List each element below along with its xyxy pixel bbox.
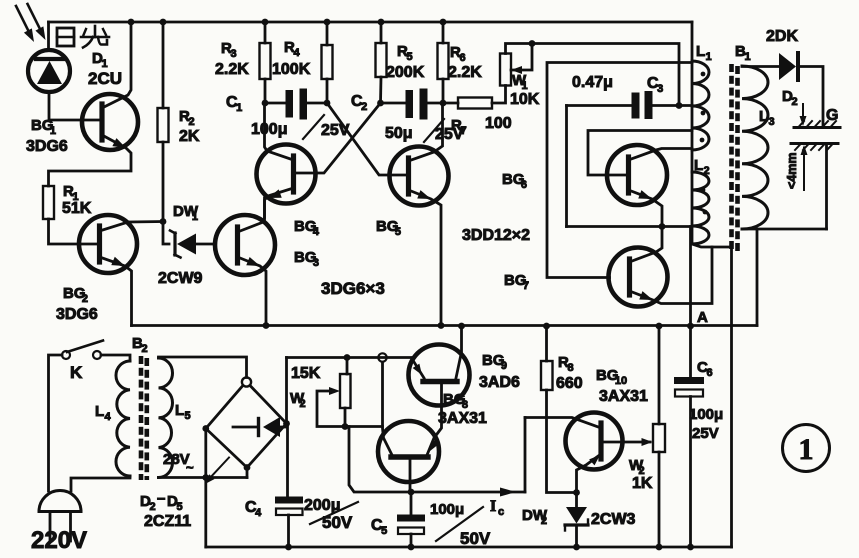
svg-text:2CZ11: 2CZ11 [144, 513, 191, 530]
value label 100u/25V [251, 115, 350, 139]
label R8 [558, 354, 574, 374]
wire C4 to bottom bus [287, 515, 290, 547]
svg-text:2CU: 2CU [88, 69, 122, 88]
svg-text:A: A [697, 309, 708, 326]
label R4 [284, 39, 300, 59]
wire BG10 base to W2 wiper [601, 438, 653, 446]
label C5 [371, 517, 387, 537]
label D2 [782, 88, 798, 108]
capacitor C1 100u/25V plates [286, 89, 308, 120]
wire bus to R8 [545, 326, 548, 361]
wire W2 15K bottom node [342, 408, 349, 430]
label L2 [694, 157, 710, 177]
wire tie line down to node A [689, 227, 692, 378]
svg-text:100K: 100K [272, 61, 311, 78]
wire C3 left down to BG6 emitter line [565, 106, 568, 227]
svg-text:3DD12×2: 3DD12×2 [462, 227, 530, 244]
svg-text:50V: 50V [460, 529, 491, 548]
wire R5 to C2 node [379, 77, 382, 103]
gap spacing dimension arrows [800, 104, 808, 190]
svg-text:7: 7 [460, 125, 466, 137]
wire L2 bottom jog [692, 244, 732, 247]
value label 100K [272, 61, 311, 78]
potentiometer W2 1K [653, 424, 665, 452]
value label 1K [632, 475, 653, 492]
label W2 15K [290, 390, 306, 410]
capacitor C2 50u/25V plates [406, 89, 428, 120]
spark gap G top electrode [794, 121, 840, 128]
svg-text:I: I [490, 498, 496, 515]
wire switch to L4 top [101, 355, 130, 361]
label C4 [245, 499, 262, 519]
transistor BG6 [607, 145, 667, 205]
wire bridge plus output riser [285, 358, 288, 424]
resistor R4 100K [322, 45, 333, 79]
svg-text:200K: 200K [386, 64, 425, 81]
wire BG8 emitter to BG9 base [427, 384, 442, 455]
label BG7 [504, 272, 529, 292]
wire C2 right lead [428, 102, 444, 105]
label C1 [226, 94, 242, 114]
label L1 [696, 43, 712, 63]
svg-text:L: L [175, 402, 184, 419]
wire L2 return drop to bottom bus [730, 247, 733, 547]
value label 200K [386, 64, 425, 81]
svg-text:660: 660 [556, 375, 583, 392]
wire rail to R2 [162, 22, 165, 108]
wire junction down to DW1 [163, 222, 169, 245]
svg-text:3AX31: 3AX31 [599, 388, 648, 405]
svg-text:2.2K: 2.2K [448, 64, 482, 81]
transformer B2 winding L5 [159, 358, 173, 478]
wire BG2 collector to node [100, 222, 164, 232]
wire bridge minus drop to bottom bus [202, 429, 209, 548]
svg-text:51K: 51K [62, 200, 92, 217]
value label 3AX31 for BG8 [438, 410, 487, 427]
wire node to BG8 collector [345, 425, 383, 428]
zener diode DW2 2CW3 [565, 507, 588, 547]
svg-text:L: L [696, 43, 705, 60]
label DW1 [173, 203, 199, 223]
label R3 [221, 40, 237, 60]
label K [70, 363, 83, 382]
label B1 [735, 43, 751, 63]
wire L5 bottom to bridge [159, 468, 248, 478]
label BG10 [596, 367, 627, 387]
label BG8 [443, 391, 468, 411]
svg-text:3: 3 [313, 257, 319, 269]
wire R7 to W1 bottom [492, 86, 506, 104]
wire C1 right lead [307, 102, 327, 105]
svg-text:5: 5 [176, 501, 182, 513]
wire L4 bottom to plug right [71, 476, 130, 491]
value label 3AX31 for BG10 [599, 388, 648, 405]
light arrows onto photodiode D1 [16, 4, 46, 42]
resistor R7 100 horizontal [458, 98, 492, 109]
wire L5 top to bridge [159, 357, 247, 378]
winding L2 lower [692, 172, 709, 244]
resistor R3 2.2K [260, 43, 271, 79]
label 日 (sun) drawn strokes [57, 28, 74, 46]
svg-text:6: 6 [459, 52, 465, 64]
transformer B1 primary winding L1/L2 spine [691, 61, 694, 244]
wire supply line to W2 15K top [346, 358, 349, 375]
value label 3DD12x2 [462, 227, 530, 244]
svg-text:9: 9 [501, 360, 507, 372]
svg-text:~: ~ [186, 460, 194, 475]
wire BG7 collector up [630, 227, 663, 263]
svg-text:0.47μ: 0.47μ [572, 74, 613, 91]
label 15K [291, 365, 321, 382]
transistor BG4 (mirrored) [257, 145, 316, 204]
value label 3DG6 for BG1 [26, 138, 68, 155]
value label 3DG6x3 [321, 279, 385, 298]
label C2 [351, 93, 367, 113]
value label 10K [510, 91, 540, 108]
wire rail to R4 [326, 22, 329, 45]
wire C3 left lead [567, 104, 632, 107]
wire BG10 emitter to DW2 [577, 454, 602, 507]
label 0.47u [572, 74, 613, 91]
wire BG10 collector from Ic line [525, 418, 601, 429]
svg-text:4: 4 [104, 411, 111, 423]
svg-text:G: G [826, 107, 838, 124]
svg-text:100μ: 100μ [689, 406, 723, 423]
wire BG7 emitter to return [630, 247, 713, 304]
capacitor C4 200u/50V [275, 497, 303, 516]
resistor R1 51K [43, 186, 54, 219]
value label 660 [556, 375, 583, 392]
wire C2 left lead [381, 102, 406, 105]
svg-text:1K: 1K [632, 475, 653, 492]
label 光 (light) drawn strokes [81, 26, 109, 48]
gap spacing label <4mm [785, 153, 799, 189]
value label 25V for C6 [692, 425, 719, 442]
svg-text:50V: 50V [322, 513, 353, 532]
zener diode DW1 2CW9 [170, 231, 216, 258]
label 220V [31, 527, 87, 554]
svg-text:2: 2 [703, 165, 709, 177]
svg-text:5: 5 [406, 51, 412, 63]
node junction dots on top rail [128, 19, 447, 26]
transformer B2 core [139, 356, 149, 480]
wire rail to R5 [380, 22, 383, 43]
svg-text:220V: 220V [31, 527, 87, 554]
potentiometer W1 10K [500, 54, 511, 86]
label C6 [697, 359, 713, 379]
winding polarity dots [700, 72, 708, 215]
wire node branch to Ic line [349, 427, 411, 493]
wire BG7 base line from transformer top [547, 63, 692, 278]
svg-text:2: 2 [541, 515, 547, 527]
svg-text:1: 1 [236, 102, 242, 114]
wire R4 to C1 right node [326, 79, 329, 103]
svg-text:2: 2 [361, 101, 367, 113]
wire R2 to DW1 junction [160, 142, 167, 225]
wire W1 wiper [511, 40, 535, 74]
wire R1 to BG2 base [49, 219, 100, 244]
resistor R6 2.2K [438, 43, 449, 79]
svg-text:4: 4 [313, 226, 320, 238]
svg-text:6: 6 [706, 367, 712, 379]
label node A [697, 309, 708, 326]
label 2DK [766, 28, 798, 45]
label R7 [451, 117, 467, 137]
wire BG2 emitter to mid bus [100, 257, 132, 326]
transistor BG10 (PNP) [566, 413, 623, 470]
label BG3 [294, 249, 319, 269]
label D1 [92, 50, 108, 70]
wire BG5 emitter to mid bus [409, 190, 442, 326]
wire BG6 collector to coil tap [629, 149, 693, 161]
svg-text:1: 1 [192, 211, 198, 223]
value label 2CW9 [158, 270, 203, 287]
svg-text:2.2K: 2.2K [215, 61, 249, 78]
label L3 [759, 108, 775, 128]
label W1 [512, 72, 528, 92]
svg-text:5: 5 [184, 410, 190, 422]
svg-text:L: L [759, 108, 768, 125]
transistor BG1 [82, 94, 138, 150]
wire D1 cathode to BG1 base [49, 92, 101, 120]
transistor BG8 (PNP rotated) [378, 421, 439, 482]
photodiode D1 2CU [28, 50, 70, 92]
label 28V [163, 451, 194, 475]
svg-text:1: 1 [705, 51, 711, 63]
svg-text:<4mm: <4mm [785, 153, 799, 189]
svg-text:1: 1 [799, 433, 814, 466]
wire C2 right node to R7 [443, 102, 458, 105]
winding L1 upper [692, 61, 709, 150]
label R2 [179, 108, 195, 128]
svg-text:3AD6: 3AD6 [479, 374, 520, 391]
svg-text:c: c [498, 506, 504, 518]
label Ic [490, 498, 504, 518]
wire mid bus node A [132, 324, 758, 327]
wire BG4 base from C2 node diagonal [296, 103, 381, 173]
mains plug [39, 491, 81, 542]
wire emitter-collector tie line [567, 223, 691, 230]
wire Ic node to C5 [410, 492, 413, 515]
wire BG9 collector to mid bus [456, 326, 462, 378]
wire BG4 collector to C1 node [265, 103, 294, 160]
label R6 [450, 44, 466, 64]
svg-text:3: 3 [768, 116, 774, 128]
wire C5 to bottom bus [410, 534, 413, 547]
wire BG4 emitter down [265, 188, 294, 220]
value label 3DG6 for BG2 [56, 306, 98, 323]
capacitor C6 100u/25V [674, 377, 704, 397]
wire L3 return to node A bus [756, 229, 759, 326]
value label 3AD6 [479, 374, 520, 391]
transformer B1 core [729, 64, 740, 251]
transistor BG7 [609, 248, 668, 307]
svg-text:5: 5 [381, 525, 387, 537]
wire BG9 emitter to supply [412, 358, 425, 378]
value label 2CZ11 [144, 513, 191, 530]
label C3 [647, 75, 663, 95]
value label 50u/25V [385, 119, 464, 143]
resistor R2 2K [158, 108, 169, 142]
label L5 [175, 402, 191, 422]
switch K [62, 341, 103, 360]
transistor BG3 [215, 215, 275, 275]
svg-text:2: 2 [188, 116, 194, 128]
wire bridge plus down to C4 [286, 424, 289, 497]
wire R6 to C2 right node [442, 79, 445, 103]
wire BG6 emitter down [629, 190, 663, 227]
value label 2K [179, 128, 200, 145]
resistor R8 660 [541, 361, 553, 390]
wire C6 to bottom bus [689, 397, 692, 548]
wire BG8 base down to Ic node [408, 457, 415, 495]
label BG6 [502, 171, 527, 191]
svg-text:8: 8 [567, 362, 573, 374]
wire BG6 base to coil tap [588, 131, 692, 176]
wire C3 right lead to L1 tap [653, 102, 693, 109]
svg-text:4: 4 [293, 47, 300, 59]
capacitor C5 100u/50V [397, 515, 425, 535]
svg-text:2CW3: 2CW3 [591, 511, 636, 528]
wire switch to plug left [49, 355, 63, 491]
svg-text:6: 6 [521, 179, 527, 191]
svg-text:K: K [70, 363, 83, 382]
svg-text:3DG6: 3DG6 [26, 138, 68, 155]
wire R3 to C1 node [264, 79, 267, 103]
svg-text:3: 3 [657, 83, 663, 95]
label DW2 [522, 507, 548, 527]
resistor R5 200K [376, 43, 387, 77]
wire BG5 collector to C2 right node [409, 103, 443, 161]
svg-text:25V: 25V [692, 425, 719, 442]
svg-text:2DK: 2DK [766, 28, 798, 45]
wire rail to R6 [442, 22, 445, 43]
wire BG1 emitter to R1 [49, 135, 132, 186]
bridge rectifier D2-D5 diamond [202, 377, 289, 471]
svg-text:7: 7 [523, 280, 529, 292]
label BG2 [63, 285, 88, 305]
label G [826, 107, 838, 124]
mid bus junction dots [263, 322, 694, 329]
value label 2CW3 [591, 511, 636, 528]
svg-text:L: L [95, 403, 104, 420]
svg-text:2K: 2K [179, 128, 200, 145]
svg-text:2: 2 [791, 96, 797, 108]
figure number circled 1 [783, 425, 830, 472]
capacitor C3 0.47u plates [632, 91, 653, 119]
svg-text:3DG6×3: 3DG6×3 [321, 279, 385, 298]
label L4 [95, 403, 111, 423]
svg-text:100μ: 100μ [430, 501, 464, 518]
svg-text:5: 5 [395, 226, 401, 238]
label BG4 [294, 218, 320, 238]
transistor BG5 [390, 147, 449, 206]
bridge leader arrow [205, 458, 229, 485]
value label 200u/50V [304, 497, 358, 532]
svg-text:15K: 15K [291, 365, 321, 382]
wire regulator supply line [287, 354, 412, 361]
transformer B1 secondary winding L3 [742, 66, 768, 229]
svg-text:2: 2 [149, 501, 155, 513]
value label 2CU [88, 69, 122, 88]
label BG5 [376, 218, 401, 238]
svg-text:2CW9: 2CW9 [158, 270, 203, 287]
label BG9 [482, 352, 507, 372]
svg-text:1: 1 [50, 125, 56, 137]
wire rail to R3 [264, 22, 267, 43]
svg-text:–: – [157, 490, 165, 507]
value label 100u/50V for C5 [430, 501, 491, 548]
svg-text:2: 2 [82, 293, 88, 305]
label W2 1K [629, 457, 645, 477]
transistor BG9 (PNP rotated) [409, 345, 470, 406]
wire top supply rail [49, 22, 693, 62]
wire Ic line [411, 418, 525, 497]
svg-text:3DG6: 3DG6 [56, 306, 98, 323]
label BG1 [31, 117, 56, 137]
wire bus to W2 1K top [658, 326, 661, 424]
svg-text:1: 1 [744, 51, 750, 63]
value label 100u for C6 [689, 406, 723, 423]
svg-text:3: 3 [230, 48, 236, 60]
wire gap bottom electrode to L3 return [825, 144, 828, 230]
wire BG1 collector to rail [102, 22, 131, 108]
node dots C1/C2 row [262, 100, 447, 107]
value label 51K [62, 200, 92, 217]
svg-text:10K: 10K [510, 91, 540, 108]
wire BG8 collector to link circle [378, 353, 392, 455]
svg-text:50μ: 50μ [385, 125, 413, 142]
label B2 [132, 335, 148, 355]
label R5 [397, 43, 413, 63]
label R1 [63, 183, 79, 203]
svg-text:2: 2 [141, 343, 147, 355]
diode D2 2DK [742, 53, 823, 128]
value label 2.2K for R6 [448, 64, 482, 81]
wire C1 left lead [265, 102, 286, 105]
node dot DW2 top [573, 489, 580, 496]
potentiometer W2 15K [340, 374, 351, 408]
wire C1 node diagonal to BG5 base [327, 103, 409, 175]
value label 2.2K for R3 [215, 61, 249, 78]
wire W2 15K wiper loop [317, 387, 345, 427]
wire L3 bottom lead [742, 228, 827, 231]
label D2-D5 [140, 490, 183, 513]
wire BG3 collector up to BG4 emitter [238, 198, 265, 232]
transformer B2 winding L4 [116, 361, 130, 476]
wire BG3 emitter to mid bus [238, 257, 267, 326]
value label 100 for R7 [485, 115, 512, 132]
svg-text:L: L [694, 157, 703, 174]
transistor BG2 [79, 215, 137, 273]
svg-text:10: 10 [615, 375, 627, 387]
svg-text:4: 4 [255, 507, 262, 519]
svg-text:100μ: 100μ [251, 121, 287, 138]
wire bottom bus [206, 546, 732, 549]
svg-text:2: 2 [299, 398, 305, 410]
svg-text:100: 100 [485, 115, 512, 132]
spark gap G bottom electrode [791, 144, 838, 151]
svg-text:3AX31: 3AX31 [438, 410, 487, 427]
wire R8 bottom to DW2 node [547, 390, 577, 493]
bottom bus junction dots [285, 544, 694, 551]
wire W2 1K bottom to bus [658, 452, 661, 547]
wire W1 top to feedback line [506, 44, 680, 106]
wire D1 anode to rail [47, 22, 50, 50]
